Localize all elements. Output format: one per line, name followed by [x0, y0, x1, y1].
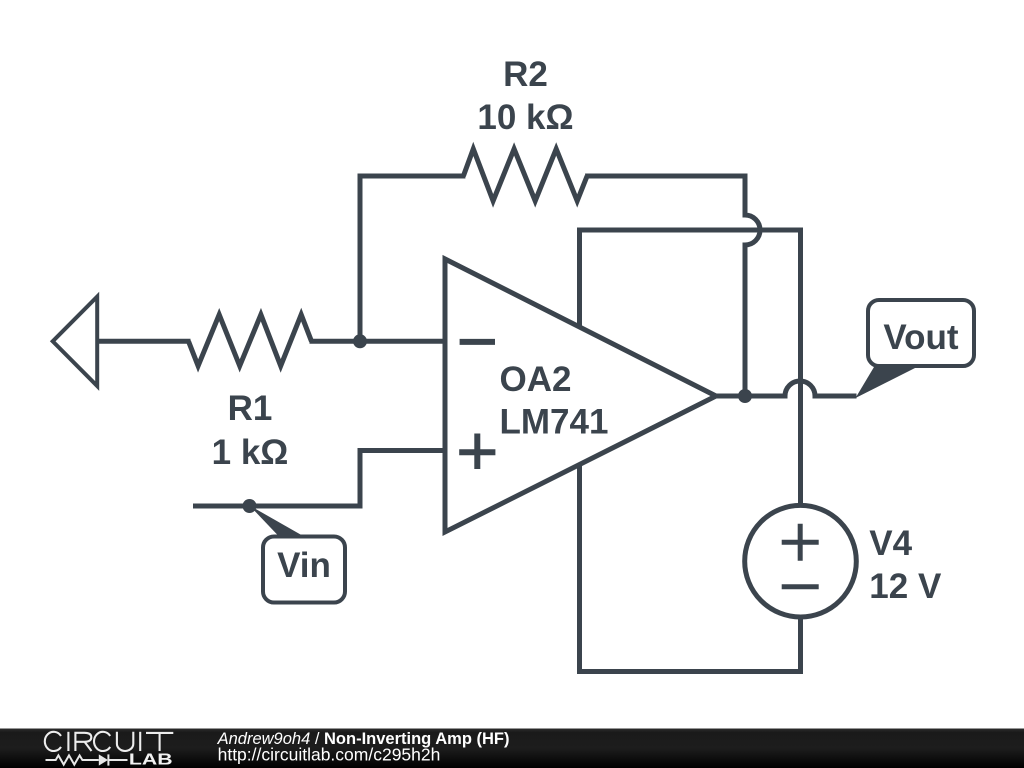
svg-text:LM741: LM741	[500, 403, 609, 442]
V4 minus mark	[782, 584, 819, 589]
wire feedback drop with hop	[585, 176, 760, 396]
wire feedback riser	[360, 176, 465, 341]
node junction at R1/feedback	[353, 334, 367, 348]
V4 plus mark	[782, 524, 819, 561]
net flag Vout	[856, 300, 975, 398]
voltage source V4	[745, 505, 857, 617]
op-amp U1 triangle	[445, 259, 716, 532]
net flag Vin	[250, 506, 346, 603]
wire Vin stub	[193, 451, 445, 507]
svg-text:http://circuitlab.com/c295h2h: http://circuitlab.com/c295h2h	[218, 745, 441, 765]
wire R1 to op-amp inverting input	[310, 339, 446, 344]
svg-text:R2: R2	[503, 55, 548, 94]
wire V+ power pin	[580, 230, 801, 506]
svg-text:10 kΩ: 10 kΩ	[477, 98, 573, 137]
logo CIRCUIT wordmark	[45, 732, 173, 751]
op-amp plus mark	[459, 434, 495, 470]
svg-text:LAB: LAB	[129, 750, 173, 768]
svg-text:Vout: Vout	[883, 318, 959, 357]
svg-text:OA2: OA2	[500, 360, 572, 399]
node junction at output	[738, 389, 752, 403]
svg-text:R1: R1	[228, 389, 273, 428]
svg-text:1 kΩ: 1 kΩ	[212, 433, 289, 472]
wire arrow to R1	[97, 339, 190, 344]
svg-text:12 V: 12 V	[869, 567, 942, 606]
wire op-amp output with hop	[716, 381, 857, 396]
input port arrow	[53, 297, 97, 386]
op-amp minus mark	[460, 339, 495, 345]
svg-text:Vin: Vin	[277, 546, 331, 585]
svg-text:V4: V4	[869, 524, 912, 563]
logo squiggle resistor-diode	[46, 754, 128, 765]
resistor R2	[463, 149, 587, 201]
wire V- power pin	[580, 465, 801, 672]
node junction at Vin	[243, 499, 257, 513]
footer bar	[0, 729, 1024, 768]
resistor R1	[189, 315, 312, 366]
